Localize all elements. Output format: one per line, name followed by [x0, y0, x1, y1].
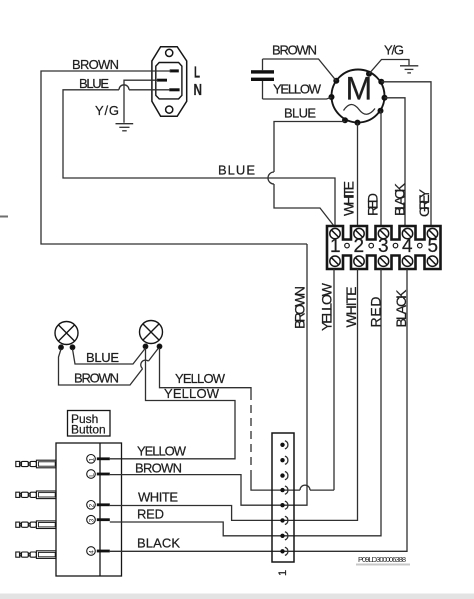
svg-text:P09LD300006388: P09LD300006388	[358, 555, 406, 564]
push button actuator 3	[16, 521, 56, 529]
terminal block TB1	[327, 226, 441, 269]
push button actuator 2	[16, 491, 56, 499]
svg-text:1: 1	[330, 236, 341, 257]
switch terminal 4	[87, 515, 110, 524]
lamp E1	[55, 322, 78, 350]
motor U1	[332, 70, 385, 123]
terminal block screws	[330, 228, 438, 266]
wire white terminal 2 to connector pin 6	[283, 269, 358, 520]
wire brown lamp feed with hop	[59, 348, 159, 385]
svg-text:WHITE: WHITE	[341, 181, 357, 216]
svg-text:3: 3	[89, 518, 96, 522]
svg-text:BLUE: BLUE	[86, 350, 119, 365]
wire black push button to connector pin 8	[110, 550, 283, 552]
switch terminal 2	[87, 470, 110, 479]
ground symbol (motor)	[400, 66, 418, 73]
wire white motor to terminal 2	[357, 123, 359, 225]
wire black terminal 4 to connector pin 8	[283, 269, 408, 551]
svg-text:N: N	[194, 82, 203, 99]
svg-text:BLUE: BLUE	[79, 76, 109, 91]
wire brown from inlet L down left side to mid column	[41, 71, 307, 244]
wire yellow terminal 1 to connector pin 4	[283, 269, 335, 490]
svg-text:YELLOW: YELLOW	[137, 444, 187, 459]
wire red push button to connector pin 6	[110, 522, 283, 536]
wire red motor to terminal 3	[380, 111, 383, 225]
svg-text:WHITE: WHITE	[343, 287, 359, 328]
svg-text:RED: RED	[137, 507, 164, 522]
switch terminal 3	[87, 501, 110, 510]
wire yellow capacitor to motor	[263, 97, 332, 99]
svg-text:Y/G: Y/G	[384, 43, 404, 58]
wire brown capacitor to motor	[263, 59, 337, 81]
lamp E2	[140, 321, 163, 349]
svg-text:BLUE: BLUE	[284, 106, 316, 121]
wire white push button to connector pin 5	[110, 506, 283, 521]
svg-text:RED: RED	[368, 297, 384, 328]
svg-text:BROWN: BROWN	[135, 461, 182, 476]
svg-text:BLACK: BLACK	[137, 536, 180, 551]
svg-text:BROWN: BROWN	[74, 371, 119, 386]
svg-text:1: 1	[89, 458, 96, 462]
switch terminal 5	[87, 547, 110, 556]
svg-text:BLACK: BLACK	[393, 289, 409, 328]
svg-text:YELLOW: YELLOW	[273, 82, 322, 97]
svg-text:WHITE: WHITE	[138, 490, 178, 505]
label Push Button	[68, 411, 111, 437]
svg-text:2: 2	[89, 504, 96, 508]
svg-text:BLACK: BLACK	[392, 182, 408, 216]
switch terminal 1	[87, 455, 110, 464]
svg-text:L: L	[89, 473, 96, 477]
wire grey motor to terminal 5	[381, 82, 431, 225]
wire brown push button to connector pin 3	[110, 475, 283, 506]
svg-text:1: 1	[277, 570, 289, 576]
svg-text:2: 2	[354, 236, 365, 257]
AC inlet connector J1	[152, 47, 187, 117]
capacitor C1	[251, 59, 274, 99]
svg-text:4: 4	[402, 236, 413, 257]
svg-text:Y/G: Y/G	[95, 103, 119, 118]
svg-text:BROWN: BROWN	[72, 57, 119, 72]
svg-text:BROWN: BROWN	[272, 43, 317, 58]
svg-text:YELLOW: YELLOW	[164, 386, 220, 401]
svg-text:Button: Button	[71, 423, 106, 437]
svg-text:3: 3	[378, 236, 389, 257]
wire brown mid column to connector pin 5	[283, 244, 308, 505]
wire yellow lamp E2 to push button	[110, 348, 235, 459]
wire Y/G motor to ground	[369, 60, 409, 74]
wire black motor to terminal 4	[385, 98, 406, 225]
svg-text:GREY: GREY	[416, 188, 432, 217]
wire blue lamp E1 to lamp E2	[73, 348, 146, 364]
svg-text:4: 4	[89, 550, 96, 554]
wire yellow lamp E2 to connector pin 4 (dashed drop)	[160, 348, 283, 490]
terminal block center holes	[345, 243, 422, 248]
connector strip X1	[272, 433, 294, 562]
svg-text:5: 5	[428, 236, 439, 257]
svg-text:YELLOW: YELLOW	[319, 282, 335, 331]
wire Y/G inlet to ground	[124, 80, 158, 123]
svg-text:BROWN: BROWN	[292, 286, 308, 329]
push button actuator 1	[16, 460, 56, 468]
push button switch S1	[56, 443, 122, 576]
wire red terminal 3 to connector pin 7	[283, 269, 382, 536]
connector strip contacts pins 1-8	[280, 441, 288, 556]
svg-text:YELLOW: YELLOW	[175, 371, 226, 386]
ground symbol (inlet)	[116, 124, 134, 131]
wire blue motor down and over to terminal 1	[268, 122, 345, 227]
svg-text:RED: RED	[365, 193, 381, 216]
wire blue from inlet N down and across to terminal 1	[63, 85, 335, 226]
push button actuator 4	[16, 551, 56, 559]
motor terminal nodes	[329, 71, 388, 126]
svg-text:BLUE: BLUE	[218, 163, 255, 178]
svg-text:L: L	[194, 65, 200, 82]
